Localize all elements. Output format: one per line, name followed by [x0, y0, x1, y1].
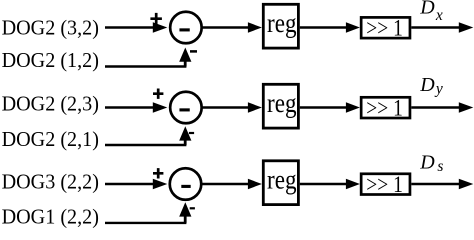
arrowhead into shifter S2: [346, 102, 360, 112]
op summing junction U2 (subtractor circle): [170, 92, 202, 124]
wire reg2 to shifter S2: [300, 106, 347, 108]
wire U1 to reg1: [202, 26, 249, 28]
wire input 2 top: [105, 106, 154, 108]
register box reg3: [263, 161, 298, 205]
svg-text:reg: reg: [267, 87, 297, 118]
plus sign at U1: [150, 13, 162, 25]
register box reg1: [263, 4, 298, 48]
arrowhead output D_s: [459, 179, 474, 190]
svg-text:reg: reg: [267, 164, 297, 195]
arrowhead into summing junction U2 minus input: [179, 126, 191, 140]
plus sign at U3: [153, 168, 163, 178]
shifter box S3 (">> 1"): [361, 174, 410, 195]
minus sign at U2: [189, 132, 194, 134]
shifter box S2 (">> 1"): [361, 97, 410, 118]
wire input 1 bottom horizontal: [105, 65, 186, 67]
arrowhead into reg3: [248, 179, 262, 189]
svg-text:DOG2 (1,2): DOG2 (1,2): [2, 48, 99, 72]
wire input 1 top: [105, 26, 154, 28]
svg-text:reg: reg: [267, 7, 297, 38]
arrowhead into shifter S1: [346, 22, 360, 32]
arrowhead into summing junction U1 plus input: [153, 22, 168, 32]
plus sign at U2: [153, 89, 163, 99]
arrowhead into summing junction U2 plus input: [153, 102, 168, 112]
svg-text:DOG2 (2,1): DOG2 (2,1): [2, 127, 99, 151]
svg-text:D: D: [419, 74, 435, 96]
arrowhead into reg1: [248, 22, 262, 32]
svg-text:DOG2 (3,2): DOG2 (3,2): [2, 15, 99, 39]
svg-text:>> 1: >> 1: [366, 16, 403, 42]
svg-text:s: s: [437, 158, 443, 175]
wire U3 to reg3: [202, 183, 249, 185]
svg-text:>> 1: >> 1: [366, 172, 403, 198]
minus glyph inside U2: [179, 108, 189, 111]
svg-text:D: D: [419, 0, 435, 19]
wire output D_x: [411, 26, 460, 28]
arrowhead output D_y: [459, 102, 474, 113]
arrowhead into summing junction U1 minus input: [179, 48, 191, 62]
wire reg3 to shifter S3: [300, 183, 347, 185]
svg-text:y: y: [434, 81, 443, 98]
svg-text:DOG3 (2,2): DOG3 (2,2): [2, 169, 99, 193]
arrowhead into summing junction U3 plus input: [153, 179, 168, 189]
svg-text:x: x: [435, 7, 443, 24]
wire input 3 top: [105, 183, 154, 185]
arrowhead output D_x: [459, 22, 474, 33]
wire input 2 bottom riser: [184, 140, 187, 145]
register box reg2: [263, 84, 298, 128]
wire input 3 bottom horizontal: [105, 222, 186, 224]
arrowhead into shifter S3: [346, 179, 360, 189]
svg-text:D: D: [419, 152, 435, 174]
minus glyph inside U1: [179, 28, 189, 31]
wire input 1 bottom riser: [184, 61, 187, 67]
minus sign at U3: [190, 207, 195, 209]
arrowhead into summing junction U3 minus input: [179, 202, 191, 216]
wire output D_y: [411, 106, 460, 108]
op summing junction U1 (subtractor circle): [170, 12, 202, 44]
wire input 2 bottom horizontal: [105, 144, 186, 146]
wire input 3 bottom riser: [184, 216, 187, 223]
shifter box S1 (">> 1"): [361, 17, 410, 38]
minus sign at U1: [190, 50, 197, 53]
wire output D_s: [411, 183, 460, 185]
wire U2 to reg2: [202, 106, 249, 108]
svg-text:>> 1: >> 1: [366, 96, 403, 122]
wire reg1 to shifter S1: [300, 26, 347, 28]
op summing junction U3 (subtractor circle): [170, 168, 202, 200]
arrowhead into reg2: [248, 102, 262, 112]
svg-text:DOG2 (2,3): DOG2 (2,3): [2, 91, 99, 115]
svg-text:DOG1 (2,2): DOG1 (2,2): [2, 205, 99, 229]
minus glyph inside U3: [181, 185, 190, 188]
